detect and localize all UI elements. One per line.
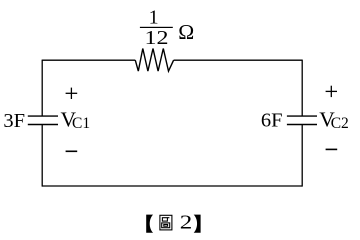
- plus sign left (C1 polarity): [66, 88, 78, 99]
- wire right vertical lower: [301, 125, 303, 187]
- wire bottom: [42, 185, 302, 187]
- caption character tu (figure): [160, 215, 172, 230]
- caption close bracket: [194, 215, 201, 233]
- plus sign right (C2 polarity): [326, 86, 337, 97]
- resistor R (1/12 ohm): [135, 49, 173, 72]
- wire left vertical lower: [41, 125, 43, 187]
- wire right vertical upper: [301, 60, 303, 117]
- svg-text:3F: 3F: [3, 110, 25, 132]
- label VC1: [61, 107, 91, 131]
- minus sign left (C1 polarity): [66, 151, 78, 153]
- svg-text:12: 12: [145, 27, 169, 49]
- capacitor C2 plates: [287, 116, 317, 124]
- capacitor C1 plates: [28, 116, 58, 124]
- svg-text:Ω: Ω: [178, 20, 194, 44]
- label VC2: [319, 107, 349, 131]
- svg-text:6F: 6F: [261, 109, 283, 131]
- wire top-left segment: [42, 59, 135, 61]
- wire left vertical upper: [41, 60, 43, 117]
- svg-text:1: 1: [149, 6, 159, 28]
- minus sign right (C2 polarity): [326, 149, 338, 151]
- svg-text:2: 2: [180, 212, 193, 234]
- wire top-right segment: [174, 59, 303, 61]
- caption open bracket: [146, 215, 153, 233]
- svg-text:C1: C1: [72, 115, 90, 132]
- fraction bar: [140, 27, 173, 28]
- svg-text:C2: C2: [331, 115, 349, 132]
